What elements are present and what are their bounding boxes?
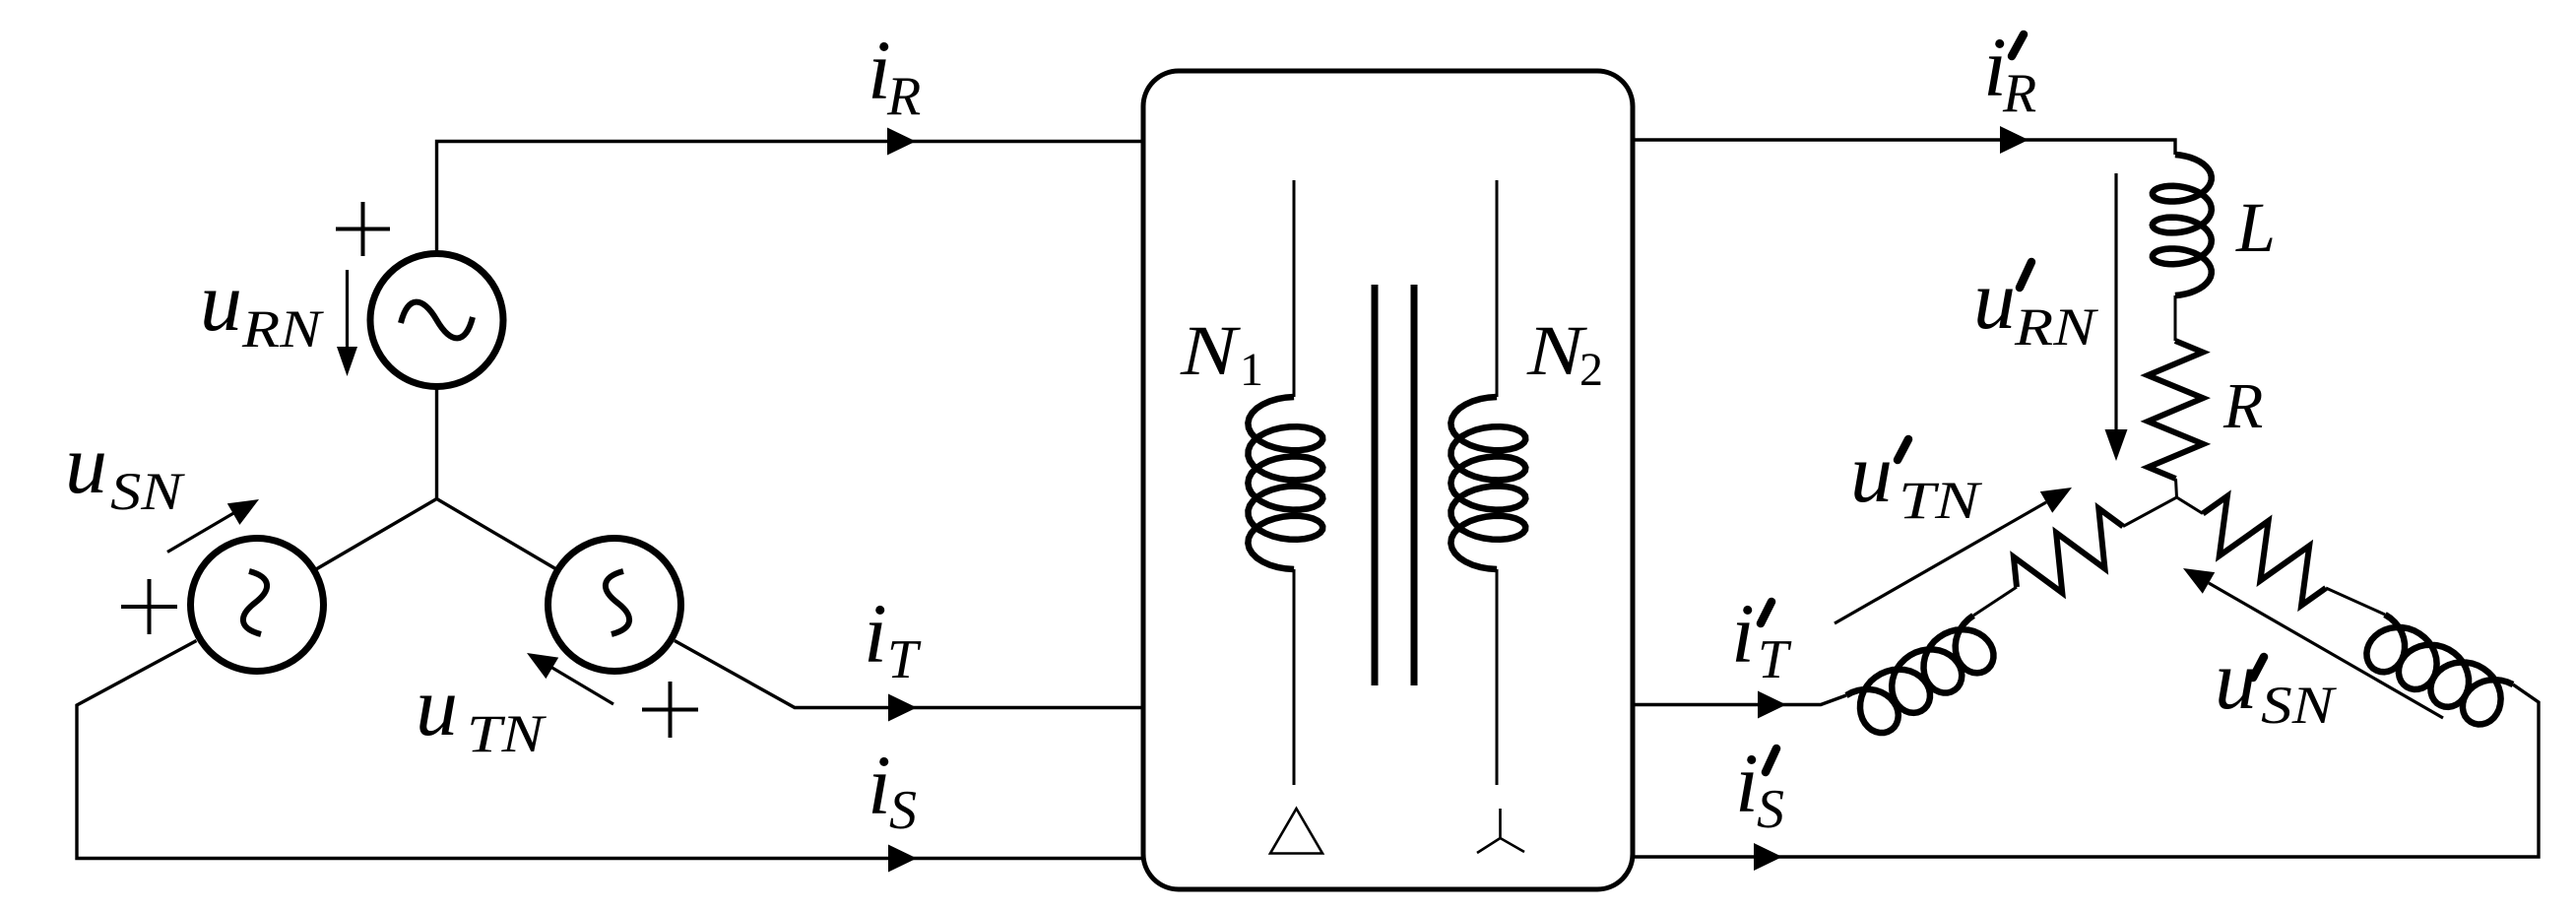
wire T coil to rail: [1633, 695, 1846, 705]
resistor T arm zigzag: [2014, 508, 2123, 593]
plus sign of U_TN: [642, 682, 698, 738]
current arrow i_S: [888, 845, 917, 873]
svg-text:u: u: [1973, 252, 2016, 347]
resistor R vertical zigzag: [2148, 341, 2203, 479]
svg-text:i: i: [868, 738, 891, 832]
primary winding N1 coil: [1248, 397, 1322, 569]
svg-text:R: R: [2002, 63, 2036, 124]
svg-text:u: u: [65, 417, 107, 511]
svg-text:RN: RN: [2014, 297, 2099, 357]
inductor S arm coil: [2366, 615, 2513, 725]
wire U_RN to neutral node: [435, 388, 438, 499]
voltage arrow u_RN: [346, 270, 349, 347]
current arrow i_R: [887, 128, 916, 156]
svg-text:TN: TN: [467, 704, 547, 763]
sine symbol in U_RN: [401, 302, 473, 339]
load star node and legs: [2123, 479, 2203, 527]
voltage arrow u'_TN: [1835, 502, 2046, 623]
current arrow i'_R: [2000, 126, 2029, 154]
current arrow i_T: [888, 694, 917, 722]
wire R-phase right rail (transformer to load): [1633, 140, 2175, 155]
wire S zigzag to coil: [2326, 588, 2385, 615]
svg-text:T: T: [1758, 629, 1792, 690]
prime of u'_RN: [2020, 262, 2031, 288]
prime of u'_SN: [2253, 657, 2264, 678]
secondary winding N2 coil: [1450, 397, 1525, 569]
svg-text:i: i: [1731, 586, 1755, 681]
prime of u'_TN: [1898, 439, 1908, 460]
svg-text:T: T: [887, 629, 922, 690]
svg-text:RN: RN: [241, 299, 325, 358]
secondary winding top lead: [1496, 180, 1499, 397]
svg-text:S: S: [889, 780, 917, 841]
svg-text:L: L: [2235, 188, 2276, 267]
svg-text:u: u: [200, 254, 242, 349]
svg-text:u: u: [416, 659, 458, 753]
prime of i'_T: [1761, 602, 1771, 623]
wire T zigzag to coil: [1973, 587, 2017, 616]
svg-text:R: R: [886, 66, 921, 127]
current arrow i'_S: [1754, 843, 1782, 871]
transformer box: [1143, 71, 1633, 889]
sine symbol in U_TN (rotated mirrored): [606, 571, 629, 634]
prime of i'_R: [2012, 34, 2024, 56]
current arrow i'_T: [1758, 691, 1786, 719]
plus sign of U_SN: [121, 579, 177, 634]
voltage arrow u'_RN: [2114, 173, 2117, 429]
delta symbol (primary): [1270, 809, 1322, 854]
node N branch wires: [316, 499, 556, 570]
wire L to R: [2174, 295, 2177, 341]
wye symbol (secondary): [1477, 809, 1524, 853]
svg-text:i: i: [864, 586, 887, 681]
svg-text:SN: SN: [2261, 676, 2337, 735]
svg-text:N: N: [1180, 311, 1242, 390]
svg-text:1: 1: [1240, 344, 1263, 396]
plus sign of U_RN: [336, 202, 390, 256]
prime of i'_S: [1766, 748, 1776, 772]
voltage arrow u'_SN: [2209, 583, 2443, 718]
svg-text:i: i: [1735, 736, 1759, 830]
sine symbol in U_SN (rotated): [243, 571, 267, 634]
resistor S arm zigzag: [2203, 496, 2326, 606]
voltage arrow u_SN: [167, 512, 235, 553]
svg-text:u: u: [1850, 425, 1893, 520]
ac source U_TN circle: [548, 539, 681, 672]
secondary winding bottom lead: [1496, 569, 1499, 785]
voltage arrow u_TN: [551, 668, 613, 705]
svg-text:2: 2: [1579, 344, 1603, 396]
svg-text:SN: SN: [110, 462, 185, 521]
ac source U_SN circle: [191, 539, 324, 672]
wire S-phase: U_SN to bottom-left corner and bottom rail: [77, 641, 1143, 859]
primary winding top lead: [1293, 180, 1296, 397]
svg-text:S: S: [1757, 779, 1784, 840]
inductor T arm coil: [1846, 616, 1993, 733]
wire T-phase: U_TN to middle rail: [675, 641, 1143, 708]
svg-text:R: R: [2222, 370, 2263, 442]
core bars: [1375, 285, 1414, 685]
wire S coil to bottom rail: [1633, 684, 2539, 857]
ac source U_RN circle: [370, 254, 503, 387]
wire R-phase top rail (source to transformer): [437, 142, 1144, 253]
primary winding bottom lead: [1293, 569, 1296, 785]
svg-text:TN: TN: [1899, 471, 1983, 530]
inductor L coil: [2153, 155, 2212, 295]
